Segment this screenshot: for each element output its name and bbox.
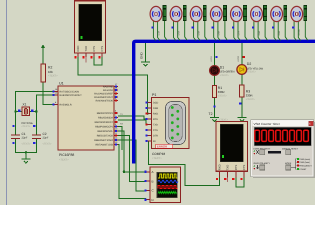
wire T1 RXD to P1 (78, 55, 151, 114)
svg-text:D10A: D10A (298, 29, 301, 35)
svg-text:<TEXT>: <TEXT> (218, 95, 228, 98)
wire P1 RI to T2 RXD (148, 141, 219, 186)
wire GND tap from bus (145, 43, 147, 62)
wire OSC2 net (29, 95, 58, 134)
svg-text:RI: RI (153, 140, 156, 143)
svg-text:RXD: RXD (218, 164, 222, 170)
svg-text:D6A: D6A (218, 30, 221, 35)
svg-text:RXD: RXD (153, 113, 158, 116)
svg-text:TXD: TXD (226, 165, 230, 171)
lamp-LED D5 (190, 6, 207, 41)
resistor R3 (239, 85, 255, 105)
svg-text:<TEXT>: <TEXT> (152, 157, 162, 160)
lamp-LED D7 (231, 6, 248, 41)
svg-text:LED1: LED1 (210, 55, 213, 62)
svg-text:GND: GND (140, 52, 144, 60)
svg-text:22pF: 22pF (22, 137, 28, 140)
svg-text:RXD: RXD (76, 46, 80, 52)
resistor R2 (41, 64, 58, 82)
wire chip RB7 to scope D (118, 145, 146, 199)
svg-text:U1: U1 (59, 82, 64, 86)
wire chip RB6 to scope C (118, 140, 146, 191)
wire chip RB5 to scope B (118, 136, 146, 182)
capacitor C2 (32, 125, 52, 146)
svg-text:TXD: TXD (84, 46, 88, 52)
LED D2 (yellow, lit) (237, 55, 264, 74)
ground (R1) (210, 117, 219, 121)
virtual terminal T2 (209, 112, 248, 182)
svg-text:DTR: DTR (153, 135, 158, 138)
svg-text:RB3/PGM/CCP1: RB3/PGM/CCP1 (95, 126, 113, 129)
svg-text:<TEXT>: <TEXT> (247, 71, 257, 74)
svg-text:RB2/SDO/RX/DT: RB2/SDO/RX/DT (95, 121, 114, 124)
wire chip TX to P1 (118, 116, 152, 119)
wire D2 chain (241, 41, 243, 117)
svg-text:D3A: D3A (157, 30, 160, 35)
node OSC2-crystal junction (35, 111, 37, 113)
svg-text:CTS: CTS (100, 46, 104, 52)
svg-text:<TEXT>: <TEXT> (246, 98, 256, 101)
svg-text:PIC16F88: PIC16F88 (59, 153, 74, 157)
bus (blue power bus) (134, 41, 315, 163)
svg-text:FREQUENCY: FREQUENCY (299, 165, 312, 168)
resistor R1 (212, 86, 227, 108)
svg-text:GATE POLARITY: GATE POLARITY (254, 162, 271, 165)
LED D1 (green, off) (210, 55, 235, 76)
svg-text:D5A: D5A (198, 30, 201, 35)
svg-text:330R: 330R (246, 94, 253, 98)
oscilloscope (145, 167, 181, 203)
lamp-LED D6 (210, 6, 227, 41)
power +5V (above R2) (42, 47, 44, 52)
svg-text:RTS: RTS (234, 165, 238, 171)
svg-text:COUNT: COUNT (299, 168, 307, 171)
svg-text:MODE: MODE (285, 162, 292, 165)
svg-text:D4A: D4A (177, 30, 180, 35)
svg-text:T2: T2 (209, 112, 213, 116)
svg-text:RTS: RTS (92, 46, 96, 52)
svg-text:LED2: LED2 (237, 55, 240, 62)
svg-text:RA4/AN4/T0CKI: RA4/AN4/T0CKI (96, 100, 114, 103)
svg-text:RB6/AN5/T1OSO: RB6/AN5/T1OSO (94, 139, 113, 142)
ground (R3) (238, 117, 247, 121)
svg-text:B: B (152, 179, 154, 183)
svg-text:D8A: D8A (258, 30, 261, 35)
svg-text:<TEXT>: <TEXT> (59, 159, 69, 162)
capacitor C1 (11, 125, 31, 146)
svg-text:CTS: CTS (242, 165, 246, 171)
svg-text:P1: P1 (152, 93, 156, 97)
svg-text:RX: RX (120, 123, 124, 126)
virtual terminal T1 (75, 1, 106, 63)
svg-text:330R: 330R (218, 90, 225, 94)
svg-text:TXD: TXD (153, 124, 158, 127)
svg-text:<TEXT>: <TEXT> (220, 74, 230, 77)
svg-text:ERROR: ERROR (157, 144, 167, 148)
svg-text:RB4/SCK/SCL: RB4/SCK/SCL (97, 130, 113, 133)
svg-text:CTS: CTS (153, 129, 158, 132)
svg-text:10k: 10k (48, 70, 53, 74)
lamp-LED D9 (271, 6, 288, 41)
wire chip RB4 to scope A (118, 131, 146, 172)
serial port P1 COMPIM (145, 93, 189, 160)
lamp-LED D3 (150, 6, 167, 41)
svg-text:DSR: DSR (153, 107, 158, 110)
lamp-LED D4 (170, 6, 187, 41)
svg-text:<TEXT>: <TEXT> (48, 75, 58, 78)
wire T2 RTS-CTS loop (236, 178, 244, 188)
wire MCLR net (R2 to chip) (43, 52, 58, 104)
ground (bus tap) (141, 62, 150, 66)
wire chip RX to P1 (118, 120, 152, 125)
wire OSC1 net (16, 92, 59, 135)
svg-text:<TEXT>: <TEXT> (22, 143, 32, 146)
svg-text:C1: C1 (22, 132, 26, 136)
svg-text:RTS: RTS (153, 118, 158, 121)
node capacitor common junction (25, 151, 27, 153)
svg-text:COMPIM: COMPIM (152, 152, 165, 156)
wire T1 TXD-RTS loop (94, 55, 102, 65)
svg-text:RB1/SDI/SDA: RB1/SDI/SDA (98, 117, 113, 120)
svg-text:TIME (secs): TIME (secs) (299, 158, 310, 161)
svg-text:TIME (hms): TIME (hms) (299, 161, 310, 164)
node scope A junction (123, 171, 126, 174)
svg-text:22pF: 22pF (43, 137, 49, 140)
svg-text:RB5/SS/TX/CK: RB5/SS/TX/CK (97, 135, 114, 138)
svg-text:DCD: DCD (153, 102, 158, 105)
ground (crystal circuit) (21, 159, 30, 163)
svg-text:RA6/OSC2/CLKOUT: RA6/OSC2/CLKOUT (60, 94, 83, 97)
svg-text:<TEXT>: <TEXT> (21, 125, 31, 128)
VSM Counter Timer window (251, 120, 315, 178)
svg-text:<TEXT>: <TEXT> (43, 143, 53, 146)
crystal X1 (18, 102, 33, 128)
node OSC1-crystal junction (14, 111, 16, 113)
wire chip RB3 stub (118, 127, 122, 151)
wire capacitor commons to ground (16, 139, 37, 159)
svg-text:X1: X1 (23, 102, 27, 106)
svg-text:D7A: D7A (238, 30, 241, 35)
wire D1 chain (214, 41, 216, 117)
sheet border (6, 0, 8, 205)
svg-text:C2: C2 (43, 132, 47, 136)
svg-text:D1: D1 (220, 66, 224, 70)
microcontroller U1 PIC16F88 (53, 82, 119, 162)
lamp-LED D8 (251, 6, 268, 41)
svg-text:<TEXT>: <TEXT> (219, 118, 229, 121)
svg-text:D2: D2 (247, 62, 251, 66)
svg-text:RB7/AN6/T1OSI: RB7/AN6/T1OSI (95, 144, 113, 147)
svg-text:RA5/MCLR: RA5/MCLR (60, 103, 72, 106)
svg-text:RB0/INT/CCP1: RB0/INT/CCP1 (97, 112, 114, 115)
svg-text:A: A (152, 170, 154, 174)
lamp-LED D10 (291, 6, 308, 41)
svg-text:VSM Counter Timer: VSM Counter Timer (254, 122, 280, 126)
svg-text:D9A: D9A (278, 30, 281, 35)
node junction at P1 RXD (146, 112, 149, 115)
